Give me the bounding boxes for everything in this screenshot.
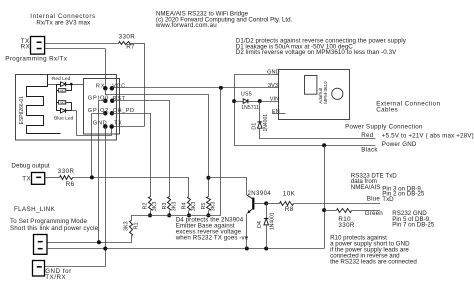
svg-text:Blue Led: Blue Led <box>54 116 74 122</box>
svg-text:US5: US5 <box>241 91 252 97</box>
svg-text:R5: R5 <box>201 203 207 210</box>
svg-text:R1: R1 <box>133 222 139 229</box>
svg-text:Red: Red <box>361 132 374 139</box>
svg-text:TX: TX <box>114 121 123 127</box>
svg-text:Programming Rx/Tx: Programming Rx/Tx <box>5 55 68 62</box>
svg-text:VCC: VCC <box>112 84 126 90</box>
svg-text:1N5711: 1N5711 <box>241 105 259 111</box>
svg-text:www.forward.com.au: www.forward.com.au <box>155 22 217 29</box>
svg-text:Black: Black <box>361 146 378 153</box>
svg-text:330R: 330R <box>58 168 75 175</box>
svg-text:RST: RST <box>113 96 126 102</box>
svg-text:2N3904: 2N3904 <box>248 191 272 197</box>
svg-text:NMEA/AIS: NMEA/AIS <box>351 184 381 191</box>
svg-text:3K3: 3K3 <box>211 202 217 212</box>
svg-text:3K3: 3K3 <box>171 202 177 212</box>
svg-text:R7: R7 <box>126 44 135 51</box>
svg-text:Debug output: Debug output <box>11 163 50 170</box>
svg-text:3K3: 3K3 <box>124 221 130 231</box>
svg-text:4K7: 4K7 <box>60 89 66 93</box>
svg-text:Blue: Blue <box>367 195 381 202</box>
svg-text:when RS232 TX goes -ve: when RS232 TX goes -ve <box>175 235 249 242</box>
svg-text:R3: R3 <box>162 203 168 210</box>
svg-text:ESP8266-01: ESP8266-01 <box>19 96 25 125</box>
svg-text:3K3: 3K3 <box>152 202 158 212</box>
svg-text:MPM-3610: MPM-3610 <box>323 81 328 104</box>
svg-text:R4: R4 <box>182 203 188 210</box>
svg-text:3K3: 3K3 <box>191 202 197 212</box>
svg-text:330R: 330R <box>119 34 136 41</box>
svg-text:RX: RX <box>21 44 30 51</box>
svg-text:D4: D4 <box>257 221 263 228</box>
svg-text:10K: 10K <box>283 191 296 198</box>
svg-text:TX/RX: TX/RX <box>45 274 66 281</box>
svg-text:Short this link and power cycl: Short this link and power cycle <box>10 225 99 232</box>
svg-text:Cables: Cables <box>376 106 398 113</box>
svg-text:TxD: TxD <box>382 196 394 203</box>
svg-text:D2 limits reverse voltage on M: D2 limits reverse voltage on MPM3610 to … <box>236 49 397 56</box>
svg-text:330R: 330R <box>338 222 355 229</box>
svg-text:R6: R6 <box>66 181 75 188</box>
svg-text:TX: TX <box>22 175 31 182</box>
svg-text:Power GND: Power GND <box>382 141 417 148</box>
svg-text:1N4001: 1N4001 <box>270 212 276 230</box>
svg-text:+5.5V to +21V ( abs max +28V): +5.5V to +21V ( abs max +28V) <box>382 133 474 140</box>
svg-text:3K3: 3K3 <box>60 101 66 105</box>
svg-text:R2: R2 <box>143 203 149 210</box>
svg-text:EN: EN <box>272 109 280 115</box>
svg-text:Green: Green <box>365 210 384 217</box>
svg-text:Rx/Tx are 3V3 max: Rx/Tx are 3V3 max <box>36 20 91 27</box>
svg-text:Red Led: Red Led <box>52 76 71 82</box>
svg-text:the RS232 leads are connected: the RS232 leads are connected <box>330 259 417 266</box>
svg-text:D1: D1 <box>251 123 257 130</box>
svg-text:FLASH_LINK: FLASH_LINK <box>14 206 56 213</box>
svg-text:Power Supply Connection: Power Supply Connection <box>345 123 423 130</box>
svg-text:Pin 7 on DB-25: Pin 7 on DB-25 <box>392 221 435 228</box>
svg-text:3V3: 3V3 <box>268 83 278 89</box>
svg-text:R8: R8 <box>285 206 294 213</box>
svg-text:1N4001: 1N4001 <box>263 114 269 132</box>
